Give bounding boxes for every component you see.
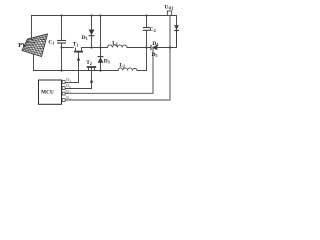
svg-text:PV: PV <box>18 43 27 49</box>
svg-text:U02: U02 <box>165 5 174 11</box>
svg-text:D4: D4 <box>152 41 158 47</box>
svg-text:C2: C2 <box>150 27 156 33</box>
svg-text:D1: D1 <box>82 35 88 41</box>
svg-text:C1: C1 <box>48 40 54 46</box>
svg-text:T1: T1 <box>73 42 79 48</box>
svg-text:D5: D5 <box>152 52 158 58</box>
svg-text:L2: L2 <box>119 62 125 68</box>
svg-text:T2: T2 <box>86 60 92 66</box>
svg-text:MCU: MCU <box>41 90 54 96</box>
svg-text:U1: U1 <box>66 89 71 95</box>
svg-text:L1: L1 <box>112 40 118 46</box>
svg-text:D3: D3 <box>104 58 110 64</box>
